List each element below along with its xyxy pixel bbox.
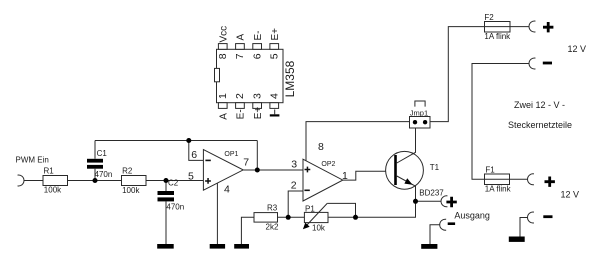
pin 7 pad — [236, 44, 245, 50]
svg-text:5: 5 — [269, 53, 281, 59]
svg-text:2k2: 2k2 — [266, 223, 279, 232]
junction C2/main — [164, 178, 169, 183]
pin 6 pad — [253, 44, 262, 50]
pin 5 pad — [270, 44, 279, 50]
OP1 minus sign — [205, 160, 210, 162]
wire Ausgang minus to ground — [430, 225, 440, 244]
minus sign Ausgang — [448, 222, 455, 225]
svg-text:3: 3 — [251, 93, 263, 99]
junction emitter node — [413, 199, 418, 204]
transistor T1 body — [386, 151, 424, 189]
IC rotated texts — [217, 26, 297, 120]
power plus/minus bold signs — [446, 22, 555, 225]
OP1 plus sign — [205, 178, 211, 184]
svg-text:4: 4 — [269, 93, 281, 99]
wire Jmp1 to F2 rail — [430, 27, 485, 122]
plus sign supply1 — [543, 22, 553, 32]
svg-text:7: 7 — [234, 53, 246, 59]
junction P1 wiper — [353, 215, 358, 220]
IC LM358 package — [215, 44, 284, 109]
ground under supply2 minus — [509, 237, 525, 242]
svg-text:E+: E+ — [270, 28, 281, 41]
op-amp OP1 — [203, 150, 243, 191]
svg-text:R3: R3 — [267, 203, 278, 212]
svg-text:6: 6 — [251, 53, 263, 59]
svg-text:BD237: BD237 — [419, 188, 444, 197]
junction C1/main — [93, 178, 98, 183]
wire OP1 output — [243, 169, 303, 171]
plus sign supply2 — [545, 177, 555, 187]
junction R3/P1/pin2 — [286, 215, 291, 220]
svg-text:1: 1 — [342, 170, 348, 182]
op-amp OP2 — [303, 159, 343, 201]
svg-text:C2: C2 — [168, 179, 179, 188]
resistor R1 — [43, 176, 68, 186]
fuse F1 — [485, 174, 510, 185]
svg-text:Vcc: Vcc — [219, 26, 230, 43]
svg-text:Zwei 12 - V -: Zwei 12 - V - — [514, 100, 565, 110]
resistor R3 — [254, 213, 278, 223]
svg-text:12 V: 12 V — [561, 189, 580, 199]
T1 base bar — [394, 155, 397, 185]
svg-text:1A flink: 1A flink — [484, 32, 511, 41]
svg-text:3: 3 — [291, 159, 297, 171]
svg-text:4: 4 — [224, 183, 230, 195]
T1 emitter line — [397, 176, 416, 201]
wire C2 to ground — [165, 201, 167, 244]
ground under Ausgang minus — [421, 244, 437, 249]
wire OP1 pin4 to ground — [216, 183, 218, 244]
minus sign supply1 — [543, 62, 552, 65]
pin 8 pad — [218, 44, 227, 50]
wire supply1 minus to F1 — [472, 64, 529, 180]
svg-text:PWM Ein: PWM Ein — [16, 156, 49, 165]
svg-text:8: 8 — [217, 53, 229, 59]
junction OP1 out — [255, 168, 260, 173]
svg-text:6: 6 — [191, 149, 197, 161]
wire input to R1 — [24, 180, 43, 182]
wire R1 to R2 — [68, 180, 122, 182]
svg-text:LM358: LM358 — [283, 60, 297, 97]
plus sign Ausgang — [446, 197, 456, 207]
Jmp1 pin 1 dot — [413, 120, 417, 124]
wire R2 to OP1 pin5 — [146, 180, 203, 182]
svg-text:Jmp1: Jmp1 — [410, 108, 428, 117]
svg-text:R2: R2 — [122, 167, 133, 176]
svg-text:2: 2 — [234, 93, 246, 99]
svg-text:R1: R1 — [44, 167, 55, 176]
T1 collector line — [397, 122, 416, 163]
svg-text:OP2: OP2 — [321, 161, 335, 168]
svg-text:E+: E+ — [253, 107, 264, 120]
wire P1 right to emitter node — [328, 201, 416, 217]
pin 1 pad — [218, 103, 227, 109]
wire pin6 tap — [189, 141, 204, 161]
P1 arrowhead — [303, 223, 310, 230]
svg-text:E-: E- — [236, 109, 247, 119]
svg-text:Steckernetzteile: Steckernetzteile — [508, 120, 572, 130]
connector supply2 minus — [528, 212, 534, 223]
pin 2 pad — [236, 103, 245, 109]
P1 wiper loop wire — [327, 203, 355, 217]
potentiometer P1 — [304, 212, 328, 222]
jumper Jmp1 box — [410, 117, 431, 129]
ground under R3 — [234, 244, 249, 249]
op-amp polarity signs — [205, 160, 310, 192]
IC ground glyph under pin4 column — [270, 110, 280, 117]
minus sign supply2 — [543, 215, 552, 218]
svg-text:A: A — [236, 34, 247, 41]
Jmp1 pin 2 dot — [423, 120, 427, 124]
P1 wiper arrow line — [306, 203, 328, 226]
svg-text:T1: T1 — [430, 163, 440, 172]
OP2 minus sign — [304, 190, 309, 192]
capacitor C2 — [158, 191, 175, 201]
svg-text:100k: 100k — [122, 186, 140, 195]
pin 3 pad — [253, 103, 262, 109]
connector supply2 plus — [528, 174, 534, 185]
svg-text:F2: F2 — [484, 13, 494, 22]
svg-text:F1: F1 — [485, 165, 495, 174]
svg-text:8: 8 — [318, 141, 324, 153]
svg-text:1: 1 — [217, 93, 229, 99]
wire R3 to left ground — [241, 217, 254, 244]
connector Ausgang plus — [441, 196, 447, 207]
connector Ausgang minus — [440, 219, 446, 230]
resistor R2 — [122, 176, 147, 186]
pin 4 pad — [270, 103, 279, 109]
T1 emitter arrowhead — [404, 178, 412, 185]
svg-text:470n: 470n — [166, 203, 184, 212]
connector J-in (PWM Ein) — [18, 175, 24, 186]
wire C1 top to feedback rail — [94, 141, 96, 159]
pin1 notch — [215, 68, 220, 81]
connector supply1 plus — [529, 21, 535, 32]
OP2 plus sign — [305, 167, 311, 173]
svg-text:A: A — [219, 113, 230, 120]
wire emitter node to Ausgang plus — [416, 200, 442, 202]
wire C1 bottom to main node — [94, 169, 96, 181]
wire OP2 output to T1 base — [343, 171, 394, 180]
svg-text:5: 5 — [188, 170, 194, 182]
svg-text:OP1: OP1 — [224, 151, 238, 158]
svg-text:E-: E- — [253, 31, 264, 41]
wire supply2 minus to ground — [520, 218, 528, 237]
wire feedback vertical — [256, 141, 258, 171]
svg-text:P1: P1 — [305, 204, 315, 213]
fuse F2 — [485, 22, 511, 33]
wire OP2 pin2 — [288, 191, 303, 217]
ground under OP1 pin4 — [210, 244, 225, 249]
svg-text:Ausgang: Ausgang — [454, 210, 490, 220]
svg-text:100k: 100k — [44, 185, 62, 194]
connector supply1 minus — [529, 58, 535, 69]
Jmp1 cap bracket — [415, 101, 425, 107]
junction feedback/pin6 — [186, 138, 191, 143]
wire R3 to P1 — [278, 216, 305, 218]
ground under C2 — [157, 244, 174, 249]
svg-text:7: 7 — [243, 157, 249, 169]
svg-text:470n: 470n — [95, 170, 113, 179]
wire OP2 pin8 to Jmp1 — [306, 122, 410, 161]
svg-text:C1: C1 — [97, 149, 108, 158]
capacitor C1 — [87, 159, 103, 169]
svg-text:10k: 10k — [312, 224, 326, 233]
svg-text:2: 2 — [291, 179, 297, 191]
svg-text:1A flink: 1A flink — [485, 184, 512, 193]
wire feedback rail top — [95, 140, 257, 142]
wire C2 top — [165, 181, 167, 192]
svg-text:12 V: 12 V — [568, 44, 587, 54]
